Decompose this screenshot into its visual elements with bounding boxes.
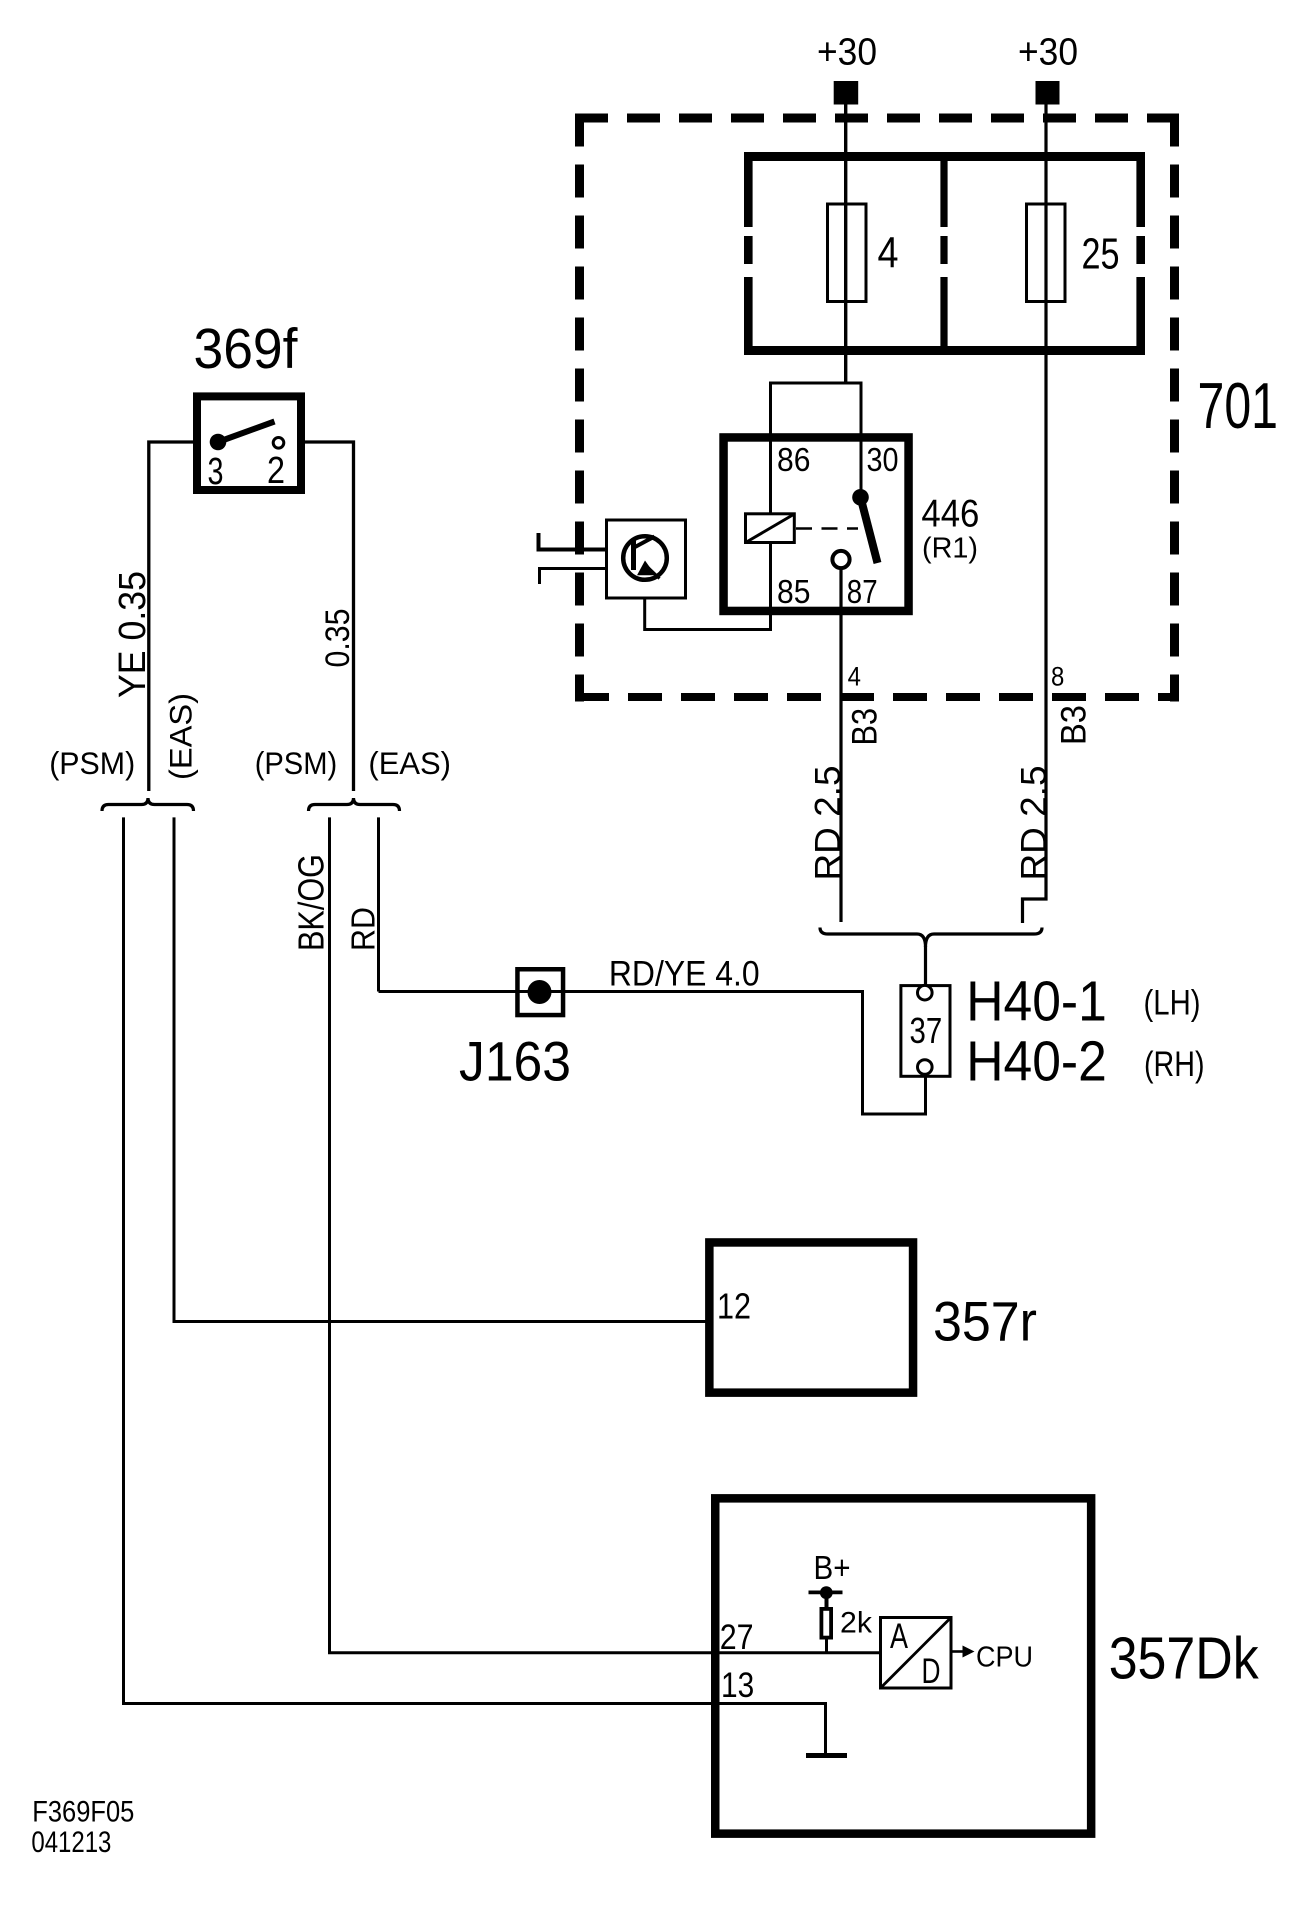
svg-text:CPU: CPU — [976, 1642, 1033, 1674]
svg-text:25: 25 — [1082, 231, 1120, 279]
wire: switch pin 2 down (0.35) — [305, 442, 354, 791]
wire BK/OG: to 357Dk pin 27 — [330, 817, 880, 1652]
svg-text:(EAS): (EAS) — [368, 746, 451, 781]
wire: +30 right terminal down through fuse 25, with jog, to headlamp brace — [1023, 104, 1047, 923]
svg-text:4: 4 — [878, 230, 899, 278]
switch 369f: pin 2 contact — [273, 438, 284, 449]
svg-text:B+: B+ — [814, 1550, 851, 1587]
svg-text:86: 86 — [777, 441, 810, 478]
svg-text:27: 27 — [720, 1618, 754, 1657]
svg-text:RD 2.5: RD 2.5 — [1013, 766, 1054, 881]
dashed actuation link coil to contact — [796, 527, 858, 530]
fuse 25 — [1027, 204, 1120, 302]
svg-text:J163: J163 — [459, 1031, 571, 1093]
svg-text:8: 8 — [1051, 661, 1064, 692]
wire: PSM branch to 357Dk pin 13 — [124, 817, 828, 1703]
relay contact 87 (open circle) — [832, 551, 849, 568]
wire: relay 87 output down to brace — [839, 567, 842, 922]
power terminal +30 (left) — [817, 31, 877, 105]
svg-text:A: A — [890, 1617, 909, 1656]
relay box 446 (R1) — [724, 437, 909, 611]
svg-text:+30: +30 — [817, 31, 877, 74]
svg-text:(PSM): (PSM) — [49, 746, 135, 781]
svg-text:H40-1: H40-1 — [966, 971, 1107, 1034]
brace: two supply wires to H40 bulbs — [820, 928, 1042, 948]
svg-text:3: 3 — [208, 451, 224, 493]
svg-text:+30: +30 — [1018, 31, 1078, 74]
switch 369f box — [197, 396, 301, 490]
svg-text:85: 85 — [777, 573, 810, 610]
svg-text:B3: B3 — [1054, 705, 1094, 745]
svg-text:357Dk: 357Dk — [1109, 1625, 1259, 1691]
transistor Q (in circle) — [623, 536, 667, 580]
svg-text:37: 37 — [910, 1011, 943, 1051]
relay contact blade — [861, 497, 878, 563]
svg-text:(PSM): (PSM) — [255, 746, 338, 781]
brace: right wire pair split — [309, 798, 400, 811]
svg-text:12: 12 — [717, 1286, 751, 1327]
svg-text:BK/OG: BK/OG — [291, 854, 332, 951]
fuse holder divider (dashed) — [940, 152, 947, 351]
H40 connector (pin 37) — [901, 985, 950, 1076]
svg-text:701: 701 — [1198, 369, 1279, 442]
svg-text:357r: 357r — [933, 1291, 1037, 1353]
wire: feed split above relay (horizontal) — [769, 382, 863, 385]
switch 369f: pin 3 contact — [210, 434, 227, 451]
svg-text:RD 2.5: RD 2.5 — [807, 766, 848, 881]
svg-text:(R1): (R1) — [922, 533, 978, 565]
wire: relay pin 85 to driver transistor — [645, 543, 771, 630]
svg-text:F369F05: F369F05 — [32, 1795, 134, 1828]
wire: branch to relay pin 30 — [860, 382, 863, 494]
fuse 4 — [828, 204, 899, 302]
svg-text:30: 30 — [867, 441, 899, 478]
brace: left wire pair split — [102, 798, 194, 811]
svg-text:(LH): (LH) — [1144, 983, 1201, 1023]
svg-text:D: D — [922, 1652, 941, 1691]
control input lines (crossing dashed border) — [539, 533, 606, 584]
power terminal +30 (right) — [1018, 31, 1078, 105]
wire: brace to H40 connector — [924, 946, 927, 985]
unit box 357r — [709, 1242, 913, 1392]
switch 369f: blade — [218, 422, 275, 443]
svg-text:2k: 2k — [840, 1607, 872, 1640]
svg-text:87: 87 — [847, 573, 878, 610]
svg-text:RD/YE 4.0: RD/YE 4.0 — [609, 955, 760, 994]
svg-text:13: 13 — [721, 1666, 754, 1705]
wire: +30 left terminal down through fuse 4 to relay feed — [844, 104, 847, 383]
A/D converter U1 — [881, 1617, 952, 1691]
svg-text:2: 2 — [267, 450, 285, 492]
ground (357Dk internal) — [806, 1704, 847, 1756]
relay coil — [746, 514, 795, 543]
svg-text:(RH): (RH) — [1144, 1044, 1205, 1084]
fuse holder right edge (dashed) — [1136, 152, 1145, 351]
wire RD/YE 4.0: J163 run to H40 low-beam return — [379, 992, 926, 1115]
dashed enclosure box 701 — [575, 114, 1179, 702]
svg-text:369f: 369f — [194, 318, 298, 381]
driver/control box — [607, 520, 686, 598]
svg-text:0.35: 0.35 — [319, 609, 357, 668]
svg-text:041213: 041213 — [31, 1826, 111, 1859]
svg-text:RD: RD — [345, 907, 382, 951]
svg-text:4: 4 — [848, 661, 861, 692]
fuse holder box (top and bottom borders) — [744, 157, 1145, 351]
wire RD: down to J163 run — [377, 817, 380, 991]
wire: branch to relay pin 86 — [769, 382, 772, 515]
svg-text:B3: B3 — [845, 708, 885, 746]
B+ internal supply — [809, 1550, 851, 1608]
junction J163 — [517, 969, 563, 1015]
fuse holder left edge (dashed) — [744, 152, 753, 351]
wire: EAS branch to 357r pin 12 — [174, 817, 713, 1321]
svg-text:YE 0.35: YE 0.35 — [112, 571, 154, 698]
svg-text:446: 446 — [921, 493, 979, 536]
wire: switch pin 3 to PSM/EAS brace (YE 0.35) — [149, 442, 193, 791]
relay contact: pivot 30 — [852, 489, 869, 506]
unit box 357Dk — [715, 1498, 1091, 1833]
arrow to CPU — [953, 1646, 975, 1658]
svg-text:H40-2: H40-2 — [966, 1030, 1107, 1093]
svg-text:(EAS): (EAS) — [164, 693, 199, 780]
resistor 2k — [821, 1607, 872, 1655]
